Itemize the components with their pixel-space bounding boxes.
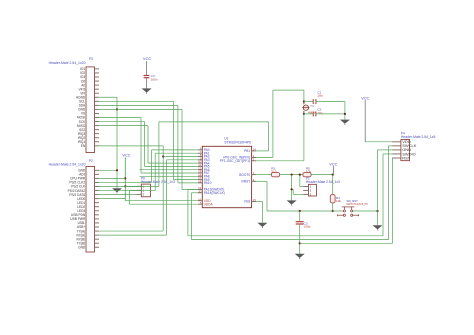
wire P3 AGND to GND bus xyxy=(99,96,117,98)
svg-text:BOOT0: BOOT0 xyxy=(239,173,250,177)
P3 pin 2 IO2 xyxy=(95,72,100,74)
wire RX(A) P2 to PA3 xyxy=(99,234,167,236)
resistor R5 10k xyxy=(303,172,311,176)
switch lower pole stubs xyxy=(338,214,344,216)
U1 pin 1 BOOT0 xyxy=(252,174,257,176)
wire EN P3 down to TX(A) net xyxy=(99,145,163,147)
P2 pin 7 PS/2 DATA xyxy=(95,194,100,196)
P3 pin 14 SCK xyxy=(95,121,100,123)
wire PA1 to PS/2 DATA2 xyxy=(155,152,198,154)
U1 pin 5 VDDA xyxy=(198,203,202,205)
P3 pin 1 IO1 xyxy=(95,68,100,70)
P3 pin 11 GND xyxy=(95,108,100,110)
wire PA0 to PS/2 CLK2 xyxy=(152,149,198,151)
junction switch/P4 gnd xyxy=(376,210,378,212)
wire P2 GND to GND bus junction xyxy=(99,169,117,171)
P6 pin 1 xyxy=(137,185,142,187)
wire R5 to VCC node xyxy=(311,174,333,176)
svg-text:P3: P3 xyxy=(89,57,93,61)
U1 pin 9 PA3 xyxy=(198,159,202,161)
wire SDA P3 to PA10 xyxy=(99,104,178,106)
ground BOOT0 divider xyxy=(287,200,297,204)
P2 pin 17 RX(A) xyxy=(95,234,100,236)
junction NRST/C3 xyxy=(299,210,301,212)
svg-text:20: 20 xyxy=(198,189,202,193)
svg-text:VCC: VCC xyxy=(361,95,369,100)
U1 pin 14 PA8 xyxy=(198,175,202,177)
wire PA8 row xyxy=(140,175,198,177)
svg-text:SWITCH-6x6x5_5H: SWITCH-6x6x5_5H xyxy=(346,203,368,206)
P4 pin 1 VDD xyxy=(392,141,401,143)
U1 pin 11 PA5 xyxy=(198,165,202,167)
P3 pin 15 MISO xyxy=(95,125,100,127)
U1 pin 18 PA10 xyxy=(198,182,202,184)
svg-text:14: 14 xyxy=(253,148,257,152)
wire MISO P3 to PA4 xyxy=(99,125,148,127)
resistor R2 510 xyxy=(271,172,279,176)
ground below C4 xyxy=(142,88,152,92)
wire VCC1 to C4 xyxy=(146,61,148,75)
wire crystal top to C1 xyxy=(304,101,313,103)
wire R4 to NRST bus xyxy=(332,203,334,211)
U1 pin 14 PB1 xyxy=(252,150,257,152)
junction P1 pin3 gnd xyxy=(291,188,293,190)
wire P4 SWDIO to PA13 xyxy=(383,153,392,155)
P2 pin 10 LED2 xyxy=(95,206,100,208)
wire VCC2 stem down to VDD rail xyxy=(124,157,126,200)
P3 pin 7 VFI xyxy=(95,92,100,94)
P2 pin 15 USB+ xyxy=(95,226,100,228)
junction crystal bottom node xyxy=(303,113,305,115)
U1 pin 4 NRST xyxy=(252,180,257,182)
U1 pin 3 PF1-OSC_OUT(PF1) xyxy=(252,160,257,162)
svg-text:STM32F030F4P6: STM32F030F4P6 xyxy=(224,140,251,144)
wire PA2 row xyxy=(163,156,198,158)
wire P6 pin1 to VCC2 stem xyxy=(125,185,137,187)
P4 pin 2 SWCLK xyxy=(392,145,401,147)
wire C2 to ground rail xyxy=(316,113,345,115)
wire PB1 to PS/2 CLK xyxy=(256,150,268,152)
P1 pin 1 xyxy=(303,186,308,188)
P2 pin 12 USB PDN xyxy=(95,214,100,216)
junction VCC2/CPU PWR xyxy=(124,177,126,179)
junction C3 gnd / P4 RST rail xyxy=(299,242,301,244)
U1 pin 19 PA13(SWDIO) xyxy=(198,189,202,191)
U1 pin 15 VSS xyxy=(252,201,257,203)
junction P1/BOOT0 xyxy=(299,174,301,176)
P2 pin 18 RX(B) xyxy=(95,238,100,240)
P2 pin 9 LED1 xyxy=(95,202,100,204)
wire C3 to ground xyxy=(299,225,301,254)
U1 pin 7 PA1 xyxy=(198,152,202,154)
P2 pin 16 TX(A) xyxy=(95,230,100,232)
wire GND bus vertical xyxy=(116,97,118,188)
svg-text:10k: 10k xyxy=(336,199,341,203)
wire P4 GND to ground xyxy=(378,149,393,151)
U1 pin 6 PA0 xyxy=(198,149,202,151)
wire VDD rail to U1 xyxy=(125,200,198,202)
svg-text:VDDA: VDDA xyxy=(204,202,214,206)
wire C4 to ground xyxy=(146,78,148,88)
wire PF1 to crystal bottom xyxy=(256,160,304,162)
wire GND row P3 to PA13 xyxy=(99,108,182,110)
P3 pin 4 D0 xyxy=(95,80,100,82)
U1 pin 20 PA14(SWCLK) xyxy=(198,192,202,194)
U1 pin 10 PA4 xyxy=(198,162,202,164)
svg-text:Header-Male 2.54_1x20: Header-Male 2.54_1x20 xyxy=(49,61,86,65)
U1 pin 16 VDD xyxy=(198,200,202,202)
wire P1 pin1 to BOOT0 line xyxy=(300,186,303,188)
ground crystal xyxy=(340,120,350,124)
svg-text:PB1: PB1 xyxy=(244,149,250,153)
junction R5/VCC xyxy=(332,174,334,176)
capacitor C3 100p on NRST xyxy=(299,211,301,221)
wire BOOT0 to R2 xyxy=(256,174,271,176)
wire crystal bottom to C2 xyxy=(304,113,313,115)
junction GND bus / P3 GND xyxy=(116,108,118,110)
capacitor C4 100n xyxy=(144,75,150,76)
svg-text:100p: 100p xyxy=(304,225,311,229)
P3 pin 3 IO3 xyxy=(95,76,100,78)
U1 pin 13 PA7 xyxy=(198,172,202,174)
junction VCC2/P6 pin1 xyxy=(124,185,126,187)
wire P1 pin3 to ground net xyxy=(293,193,303,195)
P4 pin 3 GND xyxy=(392,149,401,151)
junction GND bus / P2 GND xyxy=(116,169,118,171)
U1 pin 17 PA9 xyxy=(198,179,202,181)
wire divider junction to ground xyxy=(291,175,293,201)
svg-text:NRST: NRST xyxy=(241,180,250,184)
junction crystal top node xyxy=(303,100,305,102)
junction crystal gnd xyxy=(344,113,346,115)
crystal Y1 4MHz xyxy=(303,105,308,110)
P6 pin 3 xyxy=(137,193,142,195)
ground P4 GND xyxy=(373,225,383,229)
P2 pin 14 USB- xyxy=(95,222,100,224)
P2 pin 4 PS/2 CLK2 xyxy=(95,181,100,183)
svg-text:15: 15 xyxy=(253,198,257,202)
header P4 Header-Male 2.54_1x5 xyxy=(401,140,410,161)
P4 pin 5 RST xyxy=(392,157,401,159)
header P6 Header-Male 2.54_1x3 xyxy=(141,184,150,197)
P2 pin 3 CPU PWR xyxy=(95,177,100,179)
ground GND bus xyxy=(112,188,122,192)
wire P2 CPU PWR to VCC2 stem xyxy=(99,177,125,179)
svg-text:510: 510 xyxy=(271,169,276,173)
capacitor C2 18p xyxy=(312,111,314,116)
header P2 Header-Male 2.54_1x20 xyxy=(86,166,95,252)
P1 pin 2 xyxy=(303,190,308,192)
svg-text:VSS: VSS xyxy=(244,200,250,204)
P6 pin 2 xyxy=(137,189,142,191)
svg-text:PA14(SWCLK): PA14(SWCLK) xyxy=(204,191,225,195)
P3 pin 16 SS2 xyxy=(95,129,100,131)
P2 pin 20 GND xyxy=(95,246,100,248)
svg-text:PA10: PA10 xyxy=(204,181,212,185)
P2 pin 6 PS/2 DATA2 xyxy=(95,190,100,192)
svg-text:GND: GND xyxy=(78,245,86,249)
svg-text:18: 18 xyxy=(198,180,202,184)
svg-text:Header-Male 2.54_1x3: Header-Male 2.54_1x3 xyxy=(306,180,340,184)
P3 pin 20 EN xyxy=(95,145,100,147)
P2 pin 5 PS/2 CLK xyxy=(95,186,100,188)
P3 pin 9 SCL xyxy=(95,100,100,102)
header P3 Header-Male 2.54_1x20 xyxy=(86,67,95,153)
wire P4 RST to C3 ground rail xyxy=(392,158,394,243)
wire NRST from U1 xyxy=(256,180,267,182)
P2 pin 19 TX(B) xyxy=(95,242,100,244)
wire NRST bus xyxy=(267,210,343,212)
wire VCC node to R4 xyxy=(332,175,334,195)
svg-text:10k: 10k xyxy=(306,169,311,173)
P2 pin 1 GND xyxy=(95,169,100,171)
wire MOSI P3 to PA7 xyxy=(99,117,141,119)
wire VCC boot stem xyxy=(332,166,334,175)
P3 pin 17 IRQ3 xyxy=(95,133,100,135)
ground VSS xyxy=(257,223,267,227)
wire P2 LED0 row xyxy=(99,198,125,200)
P2 pin 13 USB PWR xyxy=(95,218,100,220)
header P1 Header-Male 2.54_1x3 xyxy=(309,184,317,196)
svg-text:RST: RST xyxy=(402,155,411,160)
P3 pin 13 MOSI xyxy=(95,117,100,119)
U1 pin 2 PF0-OSC_IN(PF0) xyxy=(252,157,257,159)
P3 pin 5 A0 xyxy=(95,84,100,86)
wire P6 pin2 to VDDA rail xyxy=(129,189,136,191)
ground C3 xyxy=(295,254,305,258)
wire R2 to R5 xyxy=(280,174,303,176)
capacitor C1 18p xyxy=(312,99,314,104)
svg-text:VCC: VCC xyxy=(329,161,337,166)
wire VCC right stem to P4 VDD xyxy=(364,100,366,142)
svg-text:P2: P2 xyxy=(89,159,93,163)
P1 pin 3 xyxy=(303,193,308,195)
svg-text:100n: 100n xyxy=(151,77,158,81)
wire crystal ground vertical xyxy=(344,102,346,120)
wire C1 to ground rail xyxy=(316,101,345,103)
P3 pin 18 IRQ2 xyxy=(95,137,100,139)
wire PA6 row xyxy=(140,169,198,171)
P3 pin 10 SDA xyxy=(95,104,100,106)
svg-text:Header-Male 2.54_1x20: Header-Male 2.54_1x20 xyxy=(49,162,86,166)
svg-text:VCC: VCC xyxy=(143,56,151,61)
P3 pin 12 VS xyxy=(95,112,100,114)
wire P2 PS/2 DATA to P6 pin3 xyxy=(99,194,137,196)
P3 pin 8 AGND xyxy=(95,96,100,98)
junction EN/PA2 xyxy=(162,155,164,157)
svg-text:Y1: Y1 xyxy=(310,104,314,108)
wire switch to gnd vertical xyxy=(353,210,378,212)
wire PF0 to crystal top xyxy=(256,157,273,159)
U1 pin 12 PA6 xyxy=(198,169,202,171)
wire SCL P3 to PA9 xyxy=(99,100,174,102)
wire P4 SWCLK to PA14 xyxy=(389,145,393,147)
junction BOOT0 divider xyxy=(291,174,293,176)
wire SCK P3 to PA5 xyxy=(99,121,145,123)
op-amp U1 STM32F030F4P6 microcontroller xyxy=(202,146,251,207)
P2 pin 2 ADJ xyxy=(95,173,100,175)
P2 pin 8 LED0 xyxy=(95,198,100,200)
P3 pin 6 VFO xyxy=(95,88,100,90)
P2 pin 11 LED3 xyxy=(95,210,100,212)
U1 pin 8 PA2 xyxy=(198,156,202,158)
P3 pin 19 IRQ1 xyxy=(95,141,100,143)
junction R4/NRST bus xyxy=(332,210,334,212)
svg-text:VCC: VCC xyxy=(122,153,130,158)
svg-text:EN: EN xyxy=(81,144,86,148)
svg-text:18p: 18p xyxy=(317,94,322,98)
resistor R4 10k xyxy=(330,195,335,203)
svg-text:PF1-OSC_OUT(PF1): PF1-OSC_OUT(PF1) xyxy=(220,159,250,163)
wire VSS to ground xyxy=(256,201,262,203)
P4 pin 4 SWDIO xyxy=(392,153,401,155)
